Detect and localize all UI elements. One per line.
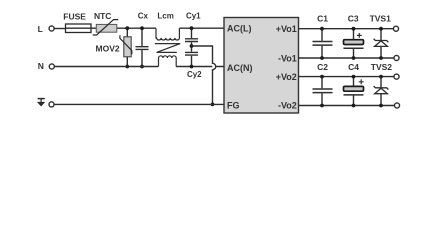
- capacitor C2: [313, 62, 333, 105]
- inductor Lcm core: [155, 44, 180, 53]
- junction dot L-MOV2: [125, 26, 129, 30]
- junction dot N-Cx: [140, 65, 144, 69]
- node -Vo1 output terminal: [394, 55, 399, 60]
- svg-text:C4: C4: [348, 62, 359, 72]
- node ground terminal circle: [49, 102, 54, 107]
- junction dot N-MOV2: [125, 65, 129, 69]
- junction dots C4: [352, 75, 356, 79]
- wire -Vo1 rail: [299, 57, 395, 59]
- capacitor Cx: [136, 11, 149, 66]
- svg-text:+Vo2: +Vo2: [276, 72, 297, 82]
- junction dot N-Cy2: [190, 65, 194, 69]
- TVS diode TVS1: [370, 13, 392, 58]
- junction dots C3: [352, 27, 356, 31]
- junction dots C2: [320, 75, 324, 79]
- junction dots C1: [320, 27, 324, 31]
- fuse FUSE: [63, 12, 91, 33]
- junction dot Cy midpoint: [190, 44, 194, 48]
- svg-text:NTC: NTC: [94, 11, 111, 21]
- wire MOV2 top lead: [126, 28, 128, 37]
- junction dot L-Cy1: [190, 26, 194, 30]
- TVS diode TVS2: [371, 62, 393, 105]
- svg-text:C3: C3: [348, 13, 359, 23]
- svg-text:C1: C1: [317, 13, 328, 23]
- capacitor C1: [313, 13, 333, 58]
- svg-text:+Vo1: +Vo1: [276, 24, 297, 34]
- wire Cy midpoint to FG rail: [192, 46, 216, 104]
- wire -Vo2 rail: [299, 105, 395, 107]
- node -Vo2 output terminal: [394, 103, 399, 108]
- capacitor Cy2: [185, 52, 202, 78]
- label Lcm: [157, 11, 173, 20]
- node L terminal circle: [49, 26, 54, 31]
- varistor MOV2: [96, 35, 132, 57]
- node +Vo1 output terminal: [393, 26, 398, 31]
- svg-text:N: N: [38, 61, 44, 71]
- svg-text:C2: C2: [317, 62, 328, 72]
- svg-text:FUSE: FUSE: [63, 12, 86, 22]
- wire L terminal to fuse: [54, 28, 65, 30]
- wire +Vo1 rail: [299, 28, 394, 30]
- svg-text:AC(L): AC(L): [227, 24, 252, 34]
- node N terminal circle: [49, 64, 54, 69]
- node L terminal label: [38, 24, 43, 34]
- svg-text:TVS2: TVS2: [371, 62, 393, 72]
- junction dot L-Cx: [140, 26, 144, 30]
- wire ground to box FG: [54, 103, 224, 105]
- wire MOV2 bottom lead: [126, 57, 128, 67]
- capacitor C4 (electrolytic): [344, 62, 364, 105]
- junction dot FG rail: [211, 103, 215, 107]
- node N terminal label: [38, 61, 44, 71]
- svg-text:FG: FG: [227, 100, 240, 110]
- svg-text:MOV2: MOV2: [96, 44, 120, 54]
- wire L line fuse to Lcm: [91, 27, 156, 29]
- converter module U1: [224, 18, 299, 114]
- node +Vo2 output terminal: [394, 74, 399, 79]
- wire L line Lcm to box AC(L): [179, 27, 224, 29]
- capacitor Cy1: [185, 12, 201, 52]
- svg-text:-Vo2: -Vo2: [278, 100, 297, 110]
- svg-text:AC(N): AC(N): [227, 63, 253, 73]
- wire N line Lcm to box AC(N): [176, 66, 224, 68]
- svg-text:Cx: Cx: [138, 11, 149, 20]
- junction dots TVS2: [379, 75, 383, 79]
- svg-text:-Vo1: -Vo1: [278, 53, 297, 63]
- svg-text:Lcm: Lcm: [157, 11, 173, 20]
- svg-text:Cy2: Cy2: [187, 70, 202, 79]
- wire +Vo2 rail: [299, 76, 395, 78]
- wire N line to Lcm: [55, 66, 159, 68]
- ground symbol: [37, 99, 45, 107]
- inductor Lcm bottom winding: [159, 56, 177, 67]
- svg-text:L: L: [38, 24, 43, 34]
- thermistor NTC: [93, 11, 119, 35]
- svg-text:Cy1: Cy1: [186, 12, 201, 21]
- capacitor C3 (electrolytic): [344, 13, 364, 58]
- svg-text:TVS1: TVS1: [370, 13, 392, 23]
- inductor Lcm top winding: [156, 28, 179, 40]
- junction dots TVS1: [379, 27, 383, 31]
